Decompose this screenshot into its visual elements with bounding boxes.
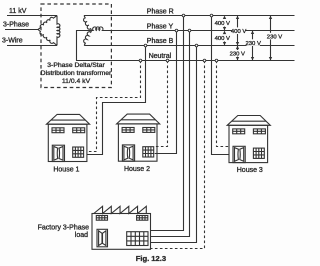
svg-text:Factory 3-Phase: Factory 3-Phase xyxy=(38,225,89,232)
svg-text:3-Phase Delta/Star: 3-Phase Delta/Star xyxy=(47,62,105,69)
svg-text:load: load xyxy=(75,232,88,239)
svg-text:230 V: 230 V xyxy=(245,41,260,47)
svg-text:Phase R: Phase R xyxy=(147,8,174,15)
svg-text:11 kV: 11 kV xyxy=(9,8,27,15)
svg-text:230 V: 230 V xyxy=(230,52,245,58)
svg-text:Neutral: Neutral xyxy=(149,53,172,60)
svg-text:11/0.4 kV: 11/0.4 kV xyxy=(62,78,91,85)
svg-text:400 V: 400 V xyxy=(215,21,230,27)
svg-text:House 2: House 2 xyxy=(124,166,150,173)
svg-text:3-Phase: 3-Phase xyxy=(3,21,29,28)
svg-text:3-Wire: 3-Wire xyxy=(2,37,23,44)
svg-text:Fig. 12.3: Fig. 12.3 xyxy=(136,254,166,263)
svg-text:House 1: House 1 xyxy=(53,166,79,173)
svg-text:400 V: 400 V xyxy=(215,36,230,42)
svg-text:House 3: House 3 xyxy=(237,167,263,174)
svg-text:230 V: 230 V xyxy=(267,34,282,40)
svg-text:Phase B: Phase B xyxy=(147,38,174,45)
svg-text:Distribution transformer: Distribution transformer xyxy=(41,70,112,77)
svg-text:400 V: 400 V xyxy=(231,29,246,35)
svg-text:Phase Y: Phase Y xyxy=(147,24,174,31)
